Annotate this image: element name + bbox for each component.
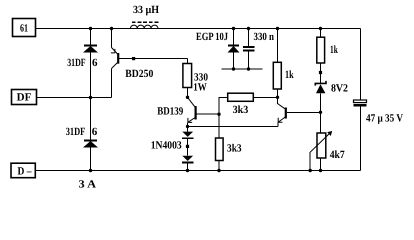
node base junction x219: [217, 113, 220, 116]
node stub x248.5: [247, 67, 250, 70]
wire emitter tie line: [188, 126, 279, 128]
terminal box DF: [12, 90, 37, 105]
terminal box D-: [11, 163, 35, 178]
node rail bottom x219: [217, 169, 220, 172]
diode 31DF6 upper: [67, 29, 98, 98]
node rail x277.5: [276, 27, 279, 30]
wire bottom rail: [36, 170, 361, 172]
transistor Q3: [278, 97, 321, 126]
svg-text:1k: 1k: [330, 44, 338, 56]
wire right vertical to capacitor: [360, 29, 362, 101]
terminal box 61: [13, 19, 36, 37]
resistor 3k3 vertical: [216, 138, 243, 171]
node collector junction x187.5: [186, 96, 189, 99]
svg-text:EGP 10J: EGP 10J: [196, 31, 228, 43]
svg-text:BD139: BD139: [157, 106, 183, 118]
resistor 3k3 horizontal: [219, 93, 278, 116]
resistor 1k middle: [273, 29, 294, 98]
wire stub line under diode and cap: [222, 68, 263, 70]
svg-text:D –: D –: [18, 166, 32, 178]
svg-text:3k3: 3k3: [233, 104, 249, 116]
svg-text:31DF: 31DF: [66, 126, 86, 138]
diode zener 8V2: [315, 73, 348, 113]
node diode chain mid: [186, 145, 189, 148]
svg-text:47 µ 35 V: 47 µ 35 V: [366, 112, 403, 124]
node DF junction: [89, 96, 92, 99]
node rail x111.5: [110, 27, 113, 30]
svg-text:BD250: BD250: [125, 68, 153, 80]
node rail bottom x320.5: [319, 169, 322, 172]
resistor 1k right: [317, 29, 339, 73]
node emitter junction: [186, 125, 189, 128]
node base junction x320.5: [319, 111, 322, 114]
wire x219 down through crossing: [218, 114, 220, 138]
capacitor 330n: [243, 29, 274, 70]
inductor L 33µH: [130, 4, 159, 29]
wire DF to diode column: [37, 97, 91, 99]
wire capacitor bottom to rail: [360, 107, 362, 171]
wire top rail: [36, 28, 361, 30]
diode 1N4003 b: [182, 148, 193, 171]
node zener top: [319, 71, 322, 74]
node rail x90: [89, 27, 92, 30]
svg-text:330 n: 330 n: [254, 31, 275, 43]
svg-text:6: 6: [92, 126, 98, 138]
trimmer 4k7: [310, 112, 345, 170]
node stub x233.5: [232, 67, 235, 70]
svg-text:33 µH: 33 µH: [133, 4, 159, 16]
svg-text:8V2: 8V2: [331, 82, 348, 94]
diode 31DF6 lower: [66, 98, 98, 171]
node rail x248.5: [247, 27, 250, 30]
svg-text:3 A: 3 A: [79, 179, 97, 191]
svg-text:DF: DF: [17, 92, 32, 104]
svg-text:3k3: 3k3: [227, 142, 242, 154]
svg-text:1k: 1k: [285, 69, 294, 81]
svg-text:61: 61: [20, 23, 28, 35]
svg-text:6: 6: [92, 57, 98, 69]
node rail x233.5: [232, 27, 235, 30]
node base wire dot: [132, 57, 135, 60]
resistor 330 1W: [183, 59, 209, 98]
svg-text:1N4003: 1N4003: [151, 139, 182, 151]
node rail bottom x187.5: [186, 169, 189, 172]
node collector junction x277.5: [276, 96, 279, 99]
node rail bottom x310: [309, 169, 312, 172]
transistor Q1 BD250: [91, 29, 188, 98]
node rail x320.5: [319, 27, 322, 30]
svg-text:4k7: 4k7: [330, 149, 345, 161]
svg-text:31DF: 31DF: [67, 57, 86, 69]
transistor Q2 BD139: [157, 97, 219, 126]
capacitor electrolytic 47µ 35V: [354, 100, 404, 124]
diode EGP10J: [196, 29, 240, 70]
svg-text:1W: 1W: [193, 81, 207, 93]
node rail bottom x90: [89, 169, 92, 172]
diode 1N4003 a: [151, 127, 194, 152]
